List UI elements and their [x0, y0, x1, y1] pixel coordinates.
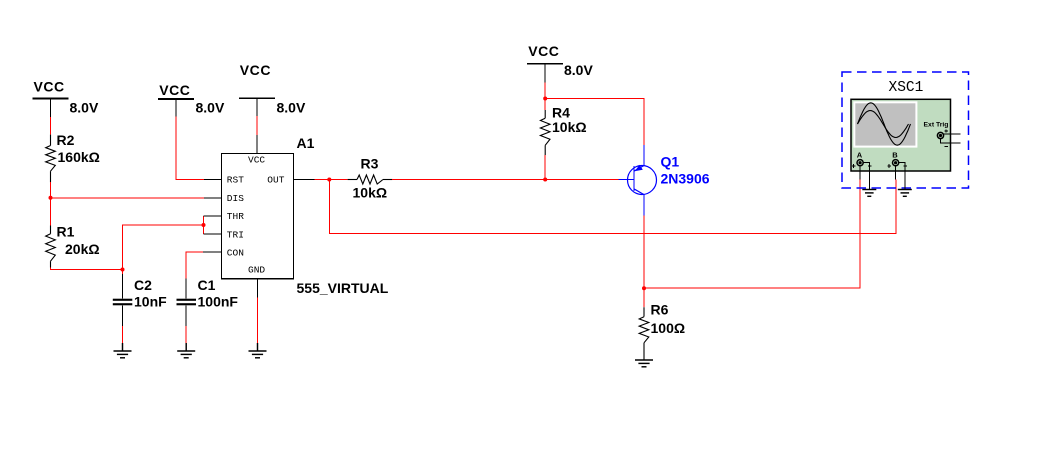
svg-text:8.0V: 8.0V — [196, 100, 225, 116]
pin stub TRI — [204, 233, 222, 235]
svg-text:GND: GND — [248, 264, 265, 275]
Ext Trig connector — [937, 132, 943, 138]
oscilloscope screen — [854, 102, 916, 146]
ground below 555 — [249, 343, 267, 358]
capacitor C2 10nF — [113, 274, 167, 326]
wire OUT to R3 — [315, 179, 348, 181]
resistor R3 10k — [348, 156, 393, 201]
svg-text:VCC: VCC — [34, 79, 65, 95]
wire THR-TRI vertical — [203, 216, 205, 234]
pin stub CON — [203, 251, 222, 253]
svg-text:160kΩ: 160kΩ — [58, 149, 100, 165]
svg-text:XSC1: XSC1 — [889, 80, 924, 96]
wire CON to C1 — [186, 252, 203, 279]
pin stub GND bottom — [257, 279, 259, 298]
svg-text:R3: R3 — [361, 156, 379, 172]
wire GND pin to ground — [257, 298, 259, 344]
pin stub THR — [204, 215, 222, 217]
wire node to DIS — [51, 197, 205, 199]
svg-text:8.0V: 8.0V — [70, 100, 99, 116]
resistor R4 10k — [540, 105, 586, 156]
scope B minus to ground elbow — [899, 163, 905, 190]
svg-text:A: A — [857, 151, 863, 160]
pin stub OUT — [294, 179, 315, 181]
oscilloscope body — [851, 99, 951, 171]
power VCC V3 8.0V — [239, 62, 306, 116]
svg-text:RST: RST — [227, 175, 244, 186]
svg-text:R6: R6 — [651, 302, 669, 318]
wire OUT down to long bus — [329, 180, 896, 234]
svg-text:100Ω: 100Ω — [651, 320, 686, 336]
svg-text:DIS: DIS — [227, 193, 244, 204]
svg-text:B: B — [892, 151, 898, 160]
pin stub RST — [204, 179, 222, 181]
op-amp/timer U A1 555_VIRTUAL box — [222, 135, 389, 296]
wire Q1 collector down — [643, 216, 645, 289]
svg-text:R2: R2 — [57, 132, 75, 148]
wire VCC2 to RST — [176, 117, 204, 180]
resistor R6 100 — [639, 288, 685, 360]
ground below C1 — [177, 343, 195, 358]
wire VCC4 to node — [544, 82, 546, 98]
node junction THR/TRI — [202, 223, 206, 227]
pin stub VCC top — [256, 135, 258, 154]
resistor R1 20k — [46, 224, 100, 268]
svg-text:2N3906: 2N3906 — [661, 171, 710, 187]
ground below C2 — [114, 343, 132, 358]
svg-text:555_VIRTUAL: 555_VIRTUAL — [297, 280, 389, 296]
wire scope B lead — [895, 166, 897, 180]
wire scope A lead — [859, 166, 861, 180]
svg-text:A1: A1 — [297, 135, 315, 151]
svg-text:VCC: VCC — [248, 155, 265, 166]
wire VCC1 to R2 — [50, 117, 52, 134]
scope A minus to ground elbow — [863, 163, 869, 190]
transistor Q1 2N3906 PNP — [619, 145, 710, 216]
ground below R6 — [635, 360, 653, 367]
node junction VCC4/R4 — [543, 97, 547, 101]
node junction R1/C2/THR-TRI — [121, 268, 125, 272]
wire C2 to ground — [122, 326, 124, 343]
node junction collector/R6/scope-A — [642, 286, 646, 290]
svg-text:8.0V: 8.0V — [277, 100, 306, 116]
capacitor C1 100nF — [177, 277, 239, 326]
svg-text:10kΩ: 10kΩ — [552, 119, 587, 135]
ground scope B — [898, 190, 912, 197]
wire C1 to ground — [185, 326, 187, 343]
svg-text:THR: THR — [227, 211, 244, 222]
scope B plus/minus — [888, 164, 907, 168]
power VCC V4 8.0V — [527, 43, 593, 82]
wire VCC3 to 555 VCC pin — [256, 116, 258, 135]
wire C2 node up to THR/TRI net — [123, 225, 204, 270]
svg-text:8.0V: 8.0V — [564, 62, 593, 78]
scope channel A connector — [857, 160, 863, 166]
svg-text:VCC: VCC — [159, 82, 190, 98]
svg-text:VCC: VCC — [528, 43, 559, 59]
wire node to C2 — [122, 270, 124, 275]
wire R1 bottom to C2 node — [51, 268, 123, 270]
node junction R4/base — [543, 178, 547, 182]
wire node to R1 — [50, 198, 52, 226]
svg-text:100nF: 100nF — [198, 294, 239, 310]
pin stub DIS — [204, 197, 222, 199]
svg-text:TRI: TRI — [227, 229, 244, 240]
wire node down to R4 — [544, 99, 546, 111]
svg-text:10kΩ: 10kΩ — [353, 185, 388, 201]
scope channel B connector — [893, 160, 899, 166]
power VCC V1 8.0V — [33, 79, 99, 118]
Ext Trig minus stub — [941, 139, 961, 147]
oscilloscope waveform B — [858, 111, 909, 138]
ground scope A — [862, 190, 876, 197]
svg-text:C1: C1 — [198, 277, 216, 293]
wire R3 to R4 node — [392, 179, 545, 181]
svg-text:Ext Trig: Ext Trig — [924, 122, 949, 129]
wire R4 to base node — [544, 155, 546, 179]
oscilloscope waveform A — [858, 103, 911, 145]
power VCC V2 8.0V — [158, 82, 225, 117]
node junction OUT — [327, 178, 331, 182]
svg-text:OUT: OUT — [267, 175, 284, 186]
wire node to scope A — [644, 180, 860, 289]
svg-text:20kΩ: 20kΩ — [65, 241, 100, 257]
svg-text:10nF: 10nF — [134, 294, 167, 310]
wire node to Q1 emitter top — [545, 99, 644, 145]
Ext Trig plus stub — [944, 129, 961, 134]
svg-text:C2: C2 — [134, 277, 152, 293]
node junction R2/R1/DIS — [49, 196, 53, 200]
wire R2 to node — [50, 182, 52, 198]
svg-text:VCC: VCC — [240, 62, 271, 78]
scope A plus/minus — [852, 164, 871, 168]
svg-text:Q1: Q1 — [661, 154, 680, 170]
svg-text:CON: CON — [227, 247, 244, 258]
svg-text:R1: R1 — [57, 224, 75, 240]
resistor R2 160k — [46, 132, 100, 182]
oscilloscope XSC1 dashed box — [842, 72, 969, 188]
wire node to Q1 base — [545, 179, 618, 181]
